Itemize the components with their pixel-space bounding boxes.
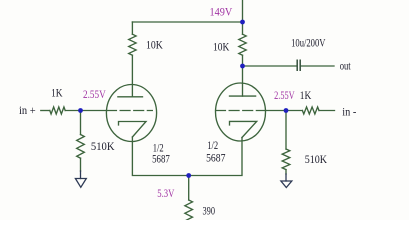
svg-text:1/2: 1/2: [207, 140, 218, 152]
svg-text:10K: 10K: [213, 42, 230, 54]
svg-text:5687: 5687: [206, 152, 226, 164]
svg-text:390: 390: [203, 206, 216, 218]
svg-text:in +: in +: [19, 105, 36, 117]
svg-text:1K: 1K: [51, 88, 63, 100]
svg-text:5.3V: 5.3V: [157, 188, 175, 200]
svg-text:510K: 510K: [305, 154, 328, 166]
svg-text:in -: in -: [342, 106, 356, 118]
svg-text:10u/200V: 10u/200V: [291, 37, 326, 49]
svg-text:1K: 1K: [300, 90, 312, 102]
svg-text:2.55V: 2.55V: [83, 89, 106, 101]
svg-text:10K: 10K: [146, 40, 163, 52]
svg-text:149V: 149V: [210, 7, 233, 19]
svg-text:510K: 510K: [91, 141, 115, 153]
svg-text:5687: 5687: [152, 154, 170, 166]
svg-text:out: out: [340, 61, 352, 73]
svg-text:2.55V: 2.55V: [274, 90, 295, 102]
